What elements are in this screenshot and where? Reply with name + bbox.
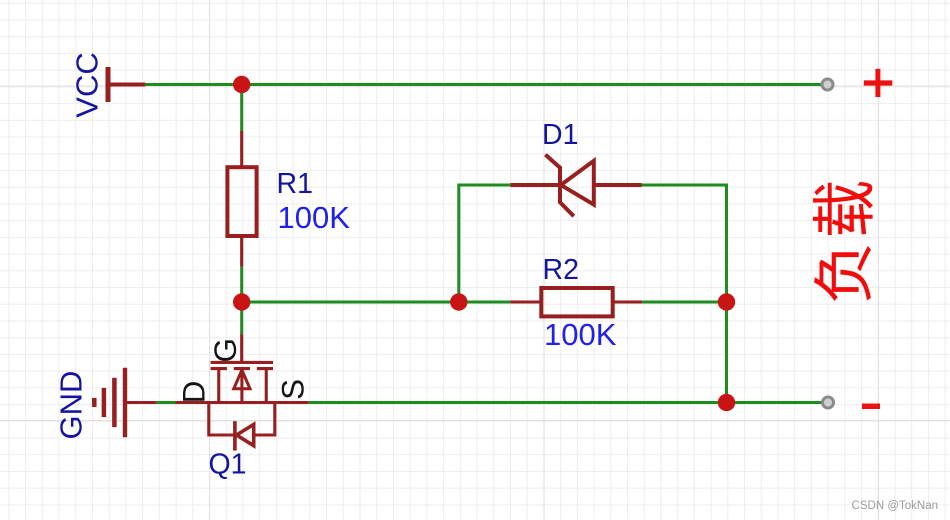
svg-text:R1: R1: [277, 168, 313, 200]
svg-text:100K: 100K: [278, 200, 351, 235]
svg-text:CSDN @TokNan: CSDN @TokNan: [852, 500, 938, 512]
svg-text:Q1: Q1: [209, 449, 247, 481]
svg-text:R2: R2: [543, 254, 579, 286]
svg-text:GND: GND: [54, 371, 89, 440]
svg-text:S: S: [275, 379, 311, 400]
svg-text:D: D: [176, 381, 212, 404]
svg-text:D1: D1: [542, 119, 578, 151]
svg-text:100K: 100K: [544, 317, 617, 352]
svg-text:G: G: [207, 338, 243, 363]
svg-text:VCC: VCC: [70, 52, 105, 117]
